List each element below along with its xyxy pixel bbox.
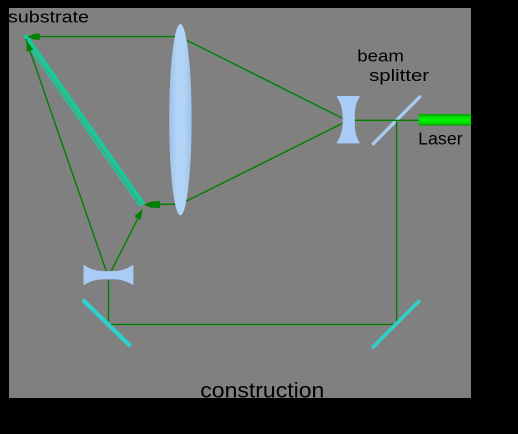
svg-text:beam: beam xyxy=(357,47,404,66)
substrate backing thin line xyxy=(26,43,140,207)
svg-text:substrate: substrate xyxy=(8,7,89,26)
laser source xyxy=(419,114,471,126)
wire object ray bottom horizontal to substrate xyxy=(145,203,180,205)
arrow object beam at substrate bottom xyxy=(144,201,160,208)
wire vertical beam from lower mirror to spreading lens xyxy=(108,280,110,322)
diverging lens L2 at beam splitter xyxy=(337,96,361,143)
wire reference ray to substrate top xyxy=(26,39,106,271)
wire laser beam horizontal xyxy=(354,119,419,121)
wire object ray top horizontal xyxy=(28,36,181,38)
mirror M1 bottom left xyxy=(83,300,131,346)
wire reflected beam vertical from beam splitter xyxy=(396,120,398,322)
svg-text:splitter: splitter xyxy=(369,66,429,85)
substrate plate thick line xyxy=(25,35,144,205)
wire object ray bottom diagonal spreading lens to lens xyxy=(185,123,344,202)
beam splitter plate xyxy=(372,96,420,145)
mirror M2 bottom right xyxy=(372,301,420,349)
converging lens L1 xyxy=(169,24,191,215)
wire reference ray to substrate bottom xyxy=(111,211,142,271)
arrow reference beam at substrate top xyxy=(26,40,33,52)
wire object ray top diagonal lens to spreading lens xyxy=(180,37,343,118)
arrow reference beam at substrate bottom xyxy=(134,209,143,220)
diverging lens L3 bottom left xyxy=(84,265,134,286)
wire bottom horizontal beam between mirrors xyxy=(111,323,396,325)
svg-text:Laser: Laser xyxy=(418,129,463,149)
svg-text:construction: construction xyxy=(200,380,324,403)
arrow object beam at substrate top xyxy=(29,34,40,40)
